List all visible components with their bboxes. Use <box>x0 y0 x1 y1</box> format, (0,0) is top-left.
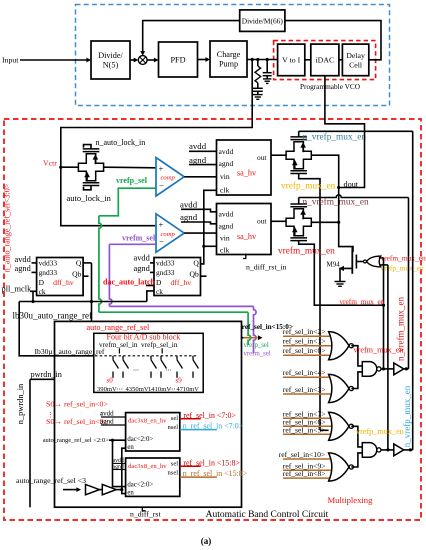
svg-text:390mV: 390mV <box>97 386 117 393</box>
svg-text:auto_range_ref_sel <2:0>: auto_range_ref_sel <2:0> <box>43 437 109 444</box>
svg-text:n_diff_rst: n_diff_rst <box>130 510 161 519</box>
svg-text:vrefp_sel: vrefp_sel <box>244 342 269 349</box>
svg-text:Programmable VCO: Programmable VCO <box>300 82 360 91</box>
svg-text:vrefm_sel: vrefm_sel <box>244 351 271 358</box>
svg-text:⋯: ⋯ <box>117 386 124 393</box>
svg-text:avdd: avdd <box>219 147 234 156</box>
svg-text:vin: vin <box>220 234 230 243</box>
svg-text:vrefm_sel_in: vrefm_sel_in <box>99 340 138 349</box>
svg-text:Vctr: Vctr <box>43 159 57 168</box>
svg-text:agnd: agnd <box>219 159 234 168</box>
svg-text:n_auto_range_ref_sel<3:0>: n_auto_range_ref_sel<3:0> <box>3 183 12 272</box>
svg-text:lb30u_auto_range_ref: lb30u_auto_range_ref <box>13 310 92 320</box>
svg-text:Input: Input <box>2 56 19 65</box>
svg-text:+: + <box>159 163 164 173</box>
svg-text:M94: M94 <box>327 261 341 269</box>
svg-text:⋯: ⋯ <box>133 368 139 374</box>
svg-text:Charge: Charge <box>217 50 241 59</box>
svg-text:Cell: Cell <box>349 60 363 69</box>
svg-text:vrefp_sel_in: vrefp_sel_in <box>141 340 178 349</box>
svg-text:agnd: agnd <box>100 418 114 426</box>
svg-text:vrefm_mux_en: vrefm_mux_en <box>339 297 384 306</box>
svg-text:sel: sel <box>171 461 178 468</box>
svg-text:ref_sel_in<3>: ref_sel_in<3> <box>283 385 326 394</box>
svg-text:ref_sel_in <7:0>: ref_sel_in <7:0> <box>183 411 236 420</box>
svg-text:n_pwrdn_in: n_pwrdn_in <box>16 383 25 424</box>
svg-text:4350mV: 4350mV <box>126 386 149 393</box>
svg-text:ref_sel_in<4>: ref_sel_in<4> <box>283 368 326 377</box>
svg-text:dac<2:0>: dac<2:0> <box>127 481 153 488</box>
svg-text:pwrdn_in: pwrdn_in <box>31 370 62 379</box>
svg-text:ck: ck <box>39 287 46 296</box>
svg-text:n_vrefm_mux_en: n_vrefm_mux_en <box>303 197 369 208</box>
svg-text:avdd: avdd <box>134 254 151 263</box>
svg-text:Delay: Delay <box>346 51 365 60</box>
svg-text:vin: vin <box>220 172 230 181</box>
svg-text:Multiplexing: Multiplexing <box>328 495 374 505</box>
svg-text:ref_sel_in<5>: ref_sel_in<5> <box>283 425 326 434</box>
svg-text:vrefp_mux_en: vrefp_mux_en <box>281 181 336 192</box>
svg-text:n_ref_sel_in <7:0>: n_ref_sel_in <7:0> <box>183 422 244 431</box>
svg-text:1410mV: 1410mV <box>148 386 171 393</box>
svg-text:avdd: avdd <box>180 199 198 209</box>
svg-text:agnd: agnd <box>189 155 207 165</box>
svg-text:Divide/: Divide/ <box>98 51 123 60</box>
svg-text:4710mV: 4710mV <box>177 386 200 393</box>
svg-text:sa_hv: sa_hv <box>237 169 257 178</box>
svg-text:en: en <box>127 444 134 451</box>
svg-text:avdd: avdd <box>219 210 234 219</box>
svg-text:nsel: nsel <box>167 469 178 476</box>
svg-text:n_vrefp_mux_en: n_vrefp_mux_en <box>402 385 412 447</box>
svg-text:clk: clk <box>220 186 229 195</box>
svg-text:s0: s0 <box>107 377 114 385</box>
svg-text:auto_range_ref_sel <3: auto_range_ref_sel <3 <box>16 476 86 485</box>
svg-text:dac3x8_en_hv: dac3x8_en_hv <box>128 463 167 470</box>
svg-text:V to I: V to I <box>282 56 300 65</box>
svg-text:iDAC: iDAC <box>316 56 335 65</box>
svg-text:Pump: Pump <box>219 60 238 69</box>
svg-text:pll_mclk: pll_mclk <box>2 285 33 294</box>
svg-text:S0→ ref_sel_in<0>: S0→ ref_sel_in<0> <box>46 400 108 409</box>
svg-text:⋯: ⋯ <box>166 368 172 374</box>
svg-text:s9: s9 <box>176 377 183 385</box>
svg-text:sa_hv: sa_hv <box>237 232 257 241</box>
svg-text:Automatic Band Control Circuit: Automatic Band Control Circuit <box>206 510 329 520</box>
svg-text:out: out <box>257 217 267 226</box>
svg-text:ref_sel_in<0>: ref_sel_in<0> <box>283 346 326 355</box>
svg-text:auto_range_ref_sel: auto_range_ref_sel <box>87 323 150 332</box>
svg-text:vrefp_mux_en: vrefp_mux_en <box>381 264 424 273</box>
svg-text:D: D <box>156 278 162 287</box>
svg-text:Ib30µ _auto_range_ref: Ib30µ _auto_range_ref <box>35 347 105 356</box>
svg-text:Divide/M(66): Divide/M(66) <box>242 17 284 26</box>
svg-text:agnd: agnd <box>134 264 151 273</box>
svg-text:out: out <box>257 153 267 162</box>
svg-text:gnd33: gnd33 <box>156 268 175 277</box>
svg-text:clk: clk <box>220 245 229 254</box>
svg-text:dac3x8_en_hv: dac3x8_en_hv <box>128 417 167 424</box>
svg-text:dff_hv: dff_hv <box>171 278 192 287</box>
svg-text:avdd: avdd <box>189 141 207 151</box>
svg-text:vdd33: vdd33 <box>156 259 175 268</box>
svg-text:−: − <box>159 237 164 247</box>
svg-text:⋯: ⋯ <box>169 386 176 393</box>
svg-text:vrefm_sel: vrefm_sel <box>122 233 156 242</box>
svg-text:ref_sel_in<10>: ref_sel_in<10> <box>279 450 326 459</box>
svg-text:Qb: Qb <box>190 269 199 278</box>
svg-text:gnd33: gnd33 <box>39 268 58 277</box>
svg-text:n_vrefp_mux_en: n_vrefp_mux_en <box>303 132 367 143</box>
svg-text:comp: comp <box>161 231 176 238</box>
svg-text:ref_sel_in<1>: ref_sel_in<1> <box>283 337 326 346</box>
svg-text:dac<2:0>: dac<2:0> <box>127 436 153 443</box>
svg-text:ref_sel_in<15:0>: ref_sel_in<15:0> <box>242 323 293 331</box>
svg-text:Q: Q <box>76 259 82 268</box>
svg-text:n_auto_lock_in: n_auto_lock_in <box>96 138 146 147</box>
svg-text:auto_lock_in: auto_lock_in <box>67 193 112 203</box>
svg-text:avdd: avdd <box>15 255 32 264</box>
svg-text:+: + <box>159 220 164 230</box>
svg-text:vrefm_mux_en: vrefm_mux_en <box>354 346 404 355</box>
svg-text:comp: comp <box>161 175 176 182</box>
svg-text:sel: sel <box>171 415 178 422</box>
svg-text:(a): (a) <box>201 536 212 546</box>
svg-text:ck: ck <box>156 287 163 296</box>
svg-text:−: − <box>159 180 164 190</box>
svg-text:ref_sel_in<8>: ref_sel_in<8> <box>283 469 326 478</box>
svg-text:Q: Q <box>193 259 199 268</box>
svg-text:en: en <box>127 489 134 496</box>
svg-text:n_ref_sel_in <15:8>: n_ref_sel_in <15:8> <box>183 469 248 478</box>
svg-text:D: D <box>39 278 45 287</box>
svg-text:avdd: avdd <box>100 410 114 418</box>
svg-text:vrefm_mux_en: vrefm_mux_en <box>381 253 426 262</box>
svg-text:vrefp_sel: vrefp_sel <box>116 176 148 185</box>
svg-text:vdd33: vdd33 <box>39 259 58 268</box>
svg-text:agnd: agnd <box>219 222 234 231</box>
svg-text:PFD: PFD <box>170 55 185 64</box>
svg-text:⋮: ⋮ <box>47 412 54 419</box>
svg-text:ref_sel_in <15:8>: ref_sel_in <15:8> <box>183 458 240 467</box>
svg-text:Qb: Qb <box>72 269 81 278</box>
svg-text:vrefp_mux_en: vrefp_mux_en <box>356 427 404 436</box>
svg-text:vrefm_mux_en: vrefm_mux_en <box>278 246 335 257</box>
svg-text:n_diff_rst_in: n_diff_rst_in <box>246 263 287 272</box>
svg-text:agnd: agnd <box>180 212 198 222</box>
svg-text:dff_hv: dff_hv <box>53 278 74 287</box>
svg-text:N(5): N(5) <box>103 61 119 70</box>
svg-text:nsel: nsel <box>167 424 178 431</box>
svg-text:agnd: agnd <box>15 264 32 273</box>
